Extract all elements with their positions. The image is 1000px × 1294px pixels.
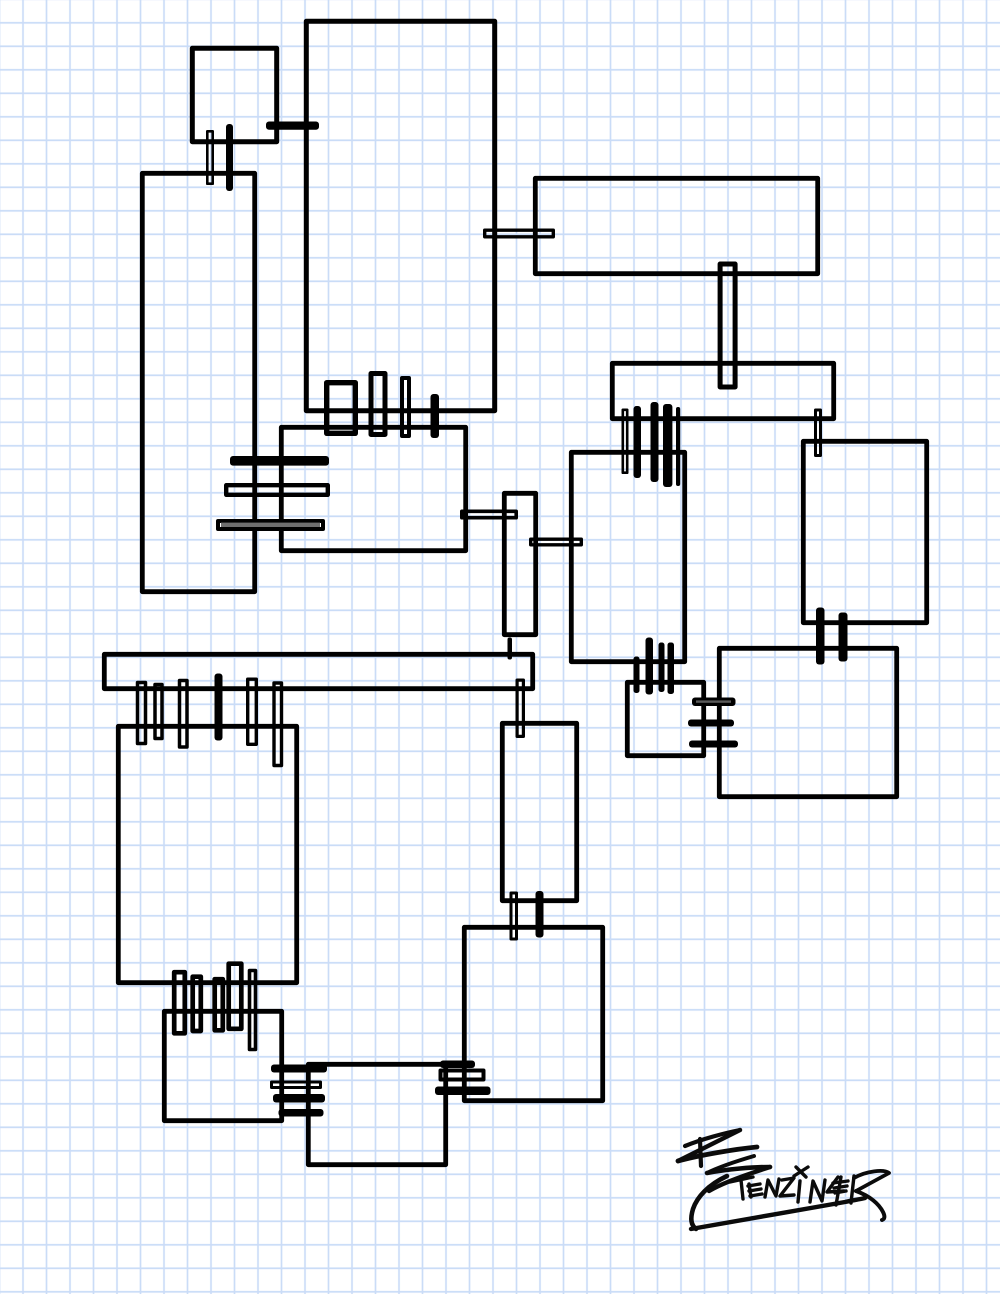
block U5	[504, 493, 535, 634]
capacitor C9 plate c	[651, 402, 659, 482]
block U14	[502, 723, 576, 900]
capacitor C12 plate c	[659, 643, 665, 693]
block U11	[627, 682, 703, 755]
capacitor C11 plate b	[839, 613, 848, 662]
capacitor C17 plate a	[174, 972, 185, 1033]
capacitor C13 plate c	[689, 741, 738, 748]
capacitor C18 plate d	[279, 1109, 324, 1117]
capacitor C12 plate a	[634, 657, 640, 694]
capacitor C15 plate c	[180, 681, 188, 748]
capacitor C16 plate	[517, 680, 523, 736]
block U2	[306, 21, 494, 410]
capacitor C10 plate	[816, 410, 821, 456]
capacitor C15 plate b	[155, 685, 162, 739]
block U1	[192, 48, 276, 141]
capacitor C18 plate b	[272, 1082, 321, 1088]
capacitor C2 plate a	[207, 131, 212, 183]
capacitor C19 plate b	[441, 1071, 484, 1080]
block U4	[281, 427, 465, 550]
capacitor C8 plate	[720, 264, 735, 387]
capacitor C19 plate c	[435, 1087, 491, 1096]
block U13	[118, 726, 296, 982]
capacitor C4 plate a	[327, 383, 356, 434]
capacitor C15 plate e	[248, 679, 257, 744]
capacitor C15 plate d	[215, 674, 223, 741]
capacitor C1 plate	[266, 122, 319, 130]
block U3	[142, 173, 254, 591]
signature	[678, 1130, 889, 1229]
capacitor C9 plate d	[663, 404, 672, 487]
capacitor C9 plate b	[634, 406, 642, 478]
capacitor C19 plate a	[440, 1061, 475, 1069]
block U7	[612, 363, 833, 418]
capacitor C7 plate	[531, 539, 582, 545]
capacitor C12 plate b	[646, 638, 654, 695]
block U9	[803, 441, 926, 622]
capacitor C5 plate b	[226, 485, 328, 495]
capacitor C4 plate c	[402, 378, 409, 436]
capacitor C9 plate a	[623, 410, 627, 473]
capacitor C5 plate a	[230, 456, 329, 466]
capacitor C9 plate e	[676, 407, 680, 486]
capacitor C4 plate b	[371, 374, 385, 435]
capacitor C12 plate d	[668, 643, 675, 695]
block U6	[535, 178, 817, 273]
capacitor C11 plate a	[816, 608, 825, 665]
block U12	[104, 654, 532, 688]
block U10	[719, 648, 896, 796]
capacitor C18 plate a	[271, 1065, 327, 1073]
capacitor C5 plate c	[218, 521, 323, 529]
capacitor C20 plate a	[511, 893, 517, 939]
capacitor C2 plate b	[226, 124, 233, 191]
capacitor C17 plate c	[215, 979, 223, 1030]
capacitor C20 plate b	[536, 891, 544, 938]
capacitor C15 plate f	[274, 683, 282, 766]
capacitor C6 plate	[462, 511, 516, 517]
capacitor C3 plate	[485, 230, 554, 237]
capacitor C17 plate e	[250, 971, 256, 1050]
block U17	[308, 1064, 445, 1164]
capacitor C13 plate b	[688, 720, 734, 727]
capacitor C15 plate a	[138, 683, 146, 744]
block U8	[571, 452, 684, 661]
capacitor C14 plate	[508, 638, 513, 660]
capacitor C4 plate d	[431, 394, 440, 438]
block U15	[464, 927, 602, 1100]
capacitor C18 plate c	[273, 1094, 325, 1103]
capacitor C17 plate d	[229, 964, 242, 1029]
block U16	[164, 1011, 281, 1120]
capacitor C13 plate a	[692, 698, 736, 707]
capacitor C17 plate b	[193, 977, 201, 1031]
